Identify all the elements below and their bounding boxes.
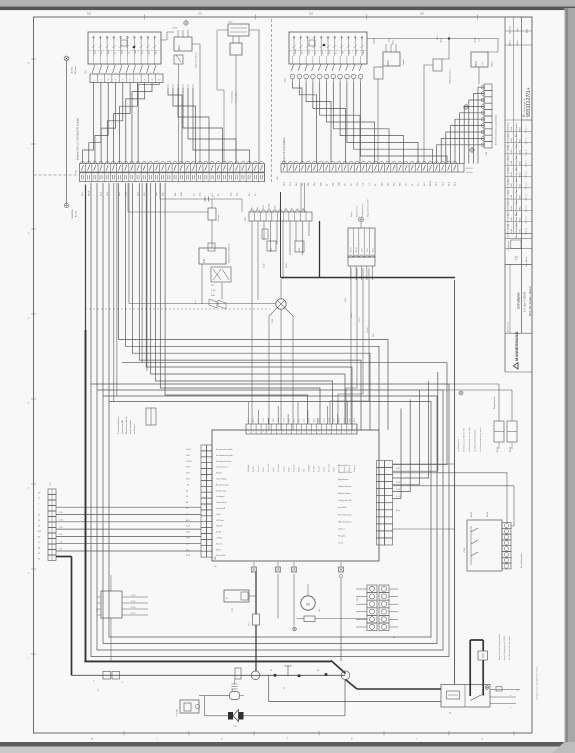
svg-text:12.08: 12.08 (511, 184, 513, 189)
note text Anschluss Zusatz (498, 634, 511, 660)
svg-text:9: 9 (334, 431, 335, 433)
frame ruler ticks left (27, 59, 37, 659)
svg-text:T: T (286, 737, 288, 741)
svg-text:Bordnetz: Bordnetz (74, 66, 77, 74)
svg-text:3: 3 (258, 431, 259, 433)
bus sensor symbol (284, 666, 292, 689)
wires top-right interconnect (367, 37, 498, 163)
label MOD left margin (72, 209, 78, 218)
svg-text:Meld.Auf: Meld.Auf (307, 464, 310, 472)
bus node circle 1 (251, 671, 260, 680)
svg-text:E13a: E13a (211, 295, 215, 297)
svg-text:14 1: 14 1 (211, 285, 214, 287)
dashed zone boundary mid-left (85, 308, 270, 310)
svg-text:+UB.14: +UB.14 (216, 538, 222, 540)
svg-text:B.Wz: B.Wz (520, 195, 522, 200)
svg-text:1 115: 1 115 (396, 482, 400, 484)
svg-text:12.08: 12.08 (511, 195, 513, 200)
terminal strip X1 left second row (80, 173, 265, 182)
svg-text:Cab2: Cab2 (274, 205, 276, 210)
title block drawing number cell (522, 87, 533, 120)
C2 outside labels (38, 493, 41, 561)
svg-text:Sich.Ein: Sich.Ein (258, 465, 260, 472)
A2 internal top labels (247, 463, 356, 472)
heavy wire left vertical (85, 185, 87, 662)
relay K2515 contact (174, 55, 183, 164)
svg-text:Gen 1.1: Gen 1.1 (526, 136, 528, 144)
svg-text:1: 1 (38, 509, 39, 511)
wire bundle left filler verticals (114, 183, 147, 402)
frame ruler ticks bottom (91, 731, 514, 741)
svg-text:2: 2 (298, 431, 299, 433)
svg-text:Pumpe0: Pumpe0 (354, 465, 356, 472)
svg-text:MOD2/B16: MOD2/B16 (72, 209, 74, 218)
labels E6.30 E6.31 (264, 264, 289, 268)
svg-text:Blk.v: Blk.v (156, 50, 158, 54)
wrap loop 2 (103, 183, 437, 644)
wrap loop 1 (109, 183, 431, 637)
svg-text:1.13: 1.13 (283, 419, 285, 423)
svg-text:30.8: 30.8 (334, 419, 336, 423)
svg-text:ab: ab (315, 52, 317, 54)
svg-text:Achslastwaage: Achslastwaage (216, 483, 229, 486)
svg-text:Dreh1: Dreh1 (324, 467, 326, 472)
title block revision rows (505, 120, 532, 264)
svg-text:2: 2 (253, 431, 254, 433)
svg-text:12.08: 12.08 (511, 229, 513, 234)
svg-text:Schutzvermerk nach DIN 34 beac: Schutzvermerk nach DIN 34 beachten (536, 666, 539, 700)
svg-text:Entlastung 2: Entlastung 2 (216, 489, 227, 492)
svg-text:5: 5 (268, 431, 269, 433)
svg-text:B6.1: B6.1 (253, 418, 255, 422)
svg-text:Kl.58: Kl.58 (216, 549, 220, 551)
svg-text:1 30: 1 30 (59, 541, 62, 543)
svg-text:Magnet.Senken: Magnet.Senken (338, 485, 351, 488)
dark fuse bowtie (228, 710, 244, 728)
svg-text:Blink: Blink (329, 50, 331, 54)
svg-text:2: 2 (344, 431, 345, 433)
fuse box in heavy loop (478, 651, 488, 660)
svg-text:Cab2: Cab2 (216, 514, 221, 516)
bus component small (231, 668, 241, 691)
title block approval cell (507, 240, 528, 267)
svg-text:4 150: 4 150 (131, 613, 136, 615)
svg-text:Deichsel C.B. E30 (Option): Deichsel C.B. E30 (Option) (283, 137, 286, 165)
svg-text:Regelgeschw.(+): Regelgeschw.(+) (362, 203, 364, 217)
svg-text:Hupe: Hupe (393, 40, 395, 45)
svg-text:12.08: 12.08 (511, 138, 513, 143)
svg-text:C4: C4 (186, 496, 188, 498)
svg-text:- B1: - B1 (186, 484, 189, 486)
svg-text:15.1: 15.1 (319, 419, 321, 423)
svg-text:2519: 2519 (475, 61, 478, 67)
bus junction dots (270, 670, 328, 677)
svg-text:Gen 1.1: Gen 1.1 (526, 125, 528, 133)
svg-text:B16/6a: B16/6a (72, 66, 74, 73)
wire bundle left verticals secondary (151, 183, 345, 424)
svg-text:31c: 31c (249, 193, 251, 196)
wires into X7 (356, 589, 398, 639)
svg-text:B6.1: B6.1 (314, 418, 316, 422)
svg-text:0 150: 0 150 (131, 601, 136, 603)
svg-text:F222: F222 (464, 547, 466, 553)
svg-text:fern: fern (321, 51, 324, 54)
svg-text:B6.05: B6.05 (88, 190, 90, 196)
svg-text:4: 4 (354, 431, 355, 433)
svg-text:bei Einbau: bei Einbau (134, 425, 136, 434)
connector 151 numbered strip (86, 69, 164, 82)
svg-text:Gen 1.1: Gen 1.1 (526, 204, 528, 212)
svg-text:Verdrahtung an 3-B und 7-B: Verdrahtung an 3-B und 7-B (463, 428, 466, 452)
svg-text:Fernlichtschalter: Fernlichtschalter (520, 553, 523, 568)
terminal strip X1 left labels (82, 190, 257, 196)
connector 272 (97, 591, 148, 618)
svg-text:B.Wz: B.Wz (520, 150, 522, 155)
terminal strip X1 right segment (277, 162, 464, 180)
svg-text:350: 350 (198, 12, 203, 16)
terminal strip X1 left segment (75, 161, 265, 173)
wires below strip U6.7 (252, 221, 309, 424)
svg-text:Drehzahlreg: Drehzahlreg (216, 501, 226, 504)
svg-text:12.08: 12.08 (511, 218, 513, 223)
svg-text:(+1): (+1) (482, 62, 484, 66)
F222 labels (471, 512, 523, 568)
svg-text:Werksnorm und Vor-: Werksnorm und Vor- (126, 415, 128, 434)
switch block F222 (464, 520, 502, 571)
svg-text:B16 (7,8) C28 Option, Zweikrei: B16 (7,8) C28 Option, Zweikreisfunk (495, 114, 498, 145)
svg-text:350: 350 (87, 12, 92, 16)
solenoid valve box right 2 (507, 390, 517, 442)
A2 top pin row (246, 424, 357, 434)
wire fan from connector 251 to strip (293, 82, 448, 164)
solenoid Y21 coil (374, 37, 395, 163)
title block upper cells (505, 26, 532, 46)
scanner band bottom (0, 742, 575, 753)
svg-text:B6.06: B6.06 (487, 512, 489, 517)
A2 right pin wires to 454 wire (393, 464, 455, 529)
fuse symbol near note (146, 408, 156, 425)
svg-text:58R: 58R (339, 182, 341, 186)
svg-text:6: 6 (273, 431, 274, 433)
svg-text:Senk.Vorw: Senk.Vorw (329, 463, 331, 472)
svg-text:r: r (417, 737, 418, 741)
svg-text:58: 58 (38, 526, 40, 528)
arrow symbols on E13 wire (195, 285, 226, 309)
connector 151 pin slashes (92, 56, 156, 73)
svg-text:3: 3 (349, 431, 350, 433)
svg-text:ho: ho (336, 52, 338, 54)
wire fan from connector 151 to strip X1 (83, 83, 160, 164)
svg-text:(1.6.9): (1.6.9) (367, 327, 369, 333)
svg-text:Lastsignal: Lastsignal (216, 495, 225, 498)
svg-text:B.Wz: B.Wz (520, 161, 522, 166)
svg-text:1914, Vhl. Sonder-, Option): 1914, Vhl. Sonder-, Option) (529, 286, 532, 317)
svg-text:Heben: Heben (334, 467, 336, 472)
svg-text:30: 30 (38, 559, 40, 561)
svg-text:1: 1 (293, 431, 294, 433)
svg-text:350: 350 (309, 12, 314, 16)
svg-text:Temperaturf. B0: Temperaturf. B0 (338, 499, 351, 502)
svg-text:SOLL.Anschluss: SOLL.Anschluss (338, 513, 352, 516)
wire contact3 down to plus node (293, 574, 297, 631)
svg-text:Schwimmstellung: Schwimmstellung (216, 460, 231, 463)
svg-text:B6.10: B6.10 (356, 247, 358, 252)
svg-text:Blink: Blink (108, 50, 110, 54)
sheet separator dashed line (271, 19, 273, 182)
svg-text:Cab: Cab (288, 419, 290, 422)
heavy wire C2 jumper down to bus (56, 557, 72, 676)
svg-text:Gen 1.1: Gen 1.1 (526, 215, 528, 223)
relay 2519 coil (471, 36, 494, 67)
svg-text:Schwimm: Schwimm (278, 464, 280, 472)
svg-text:31.8: 31.8 (248, 419, 250, 423)
svg-text:84: 84 (186, 490, 188, 492)
svg-text:1.6.1: 1.6.1 (324, 418, 326, 422)
svg-text:B Tac: B Tac (396, 510, 401, 512)
svg-text:1711: 1711 (232, 608, 234, 612)
svg-text:Kl.15 58: Kl.15 58 (466, 168, 473, 170)
svg-text:(wenn Tachograph o.V.) B16: (wenn Tachograph o.V.) B16 (503, 636, 506, 660)
svg-text:G: G (522, 114, 526, 117)
svg-text:Pu: Pu (212, 196, 214, 198)
contact marker 2 (276, 562, 281, 572)
svg-text:DBL.Sensortast: DBL.Sensortast (338, 520, 352, 523)
svg-text:B.Wz: B.Wz (520, 229, 522, 234)
svg-text:A5: A5 (38, 536, 40, 539)
svg-text:1 30: 1 30 (59, 534, 62, 536)
svg-text:B6.08: B6.08 (510, 447, 512, 452)
svg-text:Heben: Heben (273, 467, 275, 472)
frame margin copyright text (536, 666, 539, 700)
star junction E13 (129, 183, 293, 430)
wires below U6 (345, 278, 375, 337)
svg-text:15: 15 (291, 208, 293, 210)
svg-text:M1: M1 (319, 609, 321, 612)
svg-text:350: 350 (420, 12, 425, 16)
svg-text:Notab: Notab (287, 467, 290, 472)
wire right vertical 454 (454, 280, 456, 685)
connector box 151 (top-left) (88, 32, 161, 64)
svg-text:31: 31 (38, 553, 40, 555)
svg-text:K6.208: K6.208 (314, 466, 316, 472)
svg-text:4: 4 (263, 431, 264, 433)
wires mid-left (202, 264, 222, 304)
svg-text:Regen: Regen (351, 212, 353, 217)
svg-text:Cab: Cab (349, 419, 351, 422)
svg-text:B6.4: B6.4 (339, 418, 341, 422)
dashed sheet boundary left (34, 174, 80, 176)
svg-text:K6.208: K6.208 (253, 466, 255, 472)
wire staircase bundle left-mid (168, 84, 250, 164)
svg-text:31.8: 31.8 (308, 419, 310, 423)
frame ruler ticks top (87, 12, 478, 20)
wires top-left interconnect (161, 30, 259, 164)
svg-text:C28 opt: C28 opt (466, 171, 473, 174)
svg-text:Takt: Takt (302, 468, 305, 472)
A2 right outside labels (396, 468, 401, 512)
wires U6 down to A2 (330, 268, 369, 424)
svg-text:12.08: 12.08 (511, 172, 513, 177)
svg-text:B.Wz: B.Wz (520, 218, 522, 223)
svg-text:(Au): (Au) (256, 206, 259, 210)
title block description cell (508, 264, 532, 333)
svg-text:Fernst.Ueb: Fernst.Ueb (216, 554, 225, 557)
svg-text:27 B11: 27 B11 (186, 461, 192, 463)
svg-text:1 150: 1 150 (131, 595, 136, 597)
svg-text:Meld.Auf: Meld.Auf (247, 464, 250, 472)
svg-text:Fernbedienung Heb: Fernbedienung Heb (216, 454, 233, 457)
svg-text:Stand: Stand (294, 50, 297, 54)
A2 left pin outside labels (186, 449, 192, 557)
svg-text:MANNESMANN: MANNESMANN (514, 332, 519, 361)
junction symbols circled-plus right (464, 105, 474, 152)
svg-text:Gepr Name: Gepr Name (525, 257, 528, 267)
wrap loop 4 (91, 183, 449, 657)
svg-text:B.Wz: B.Wz (520, 184, 522, 189)
svg-text:251.9: 251.9 (475, 36, 477, 42)
svg-text:B16 Wass.Vent.1: B16 Wass.Vent.1 (449, 69, 452, 83)
svg-text:Freigabedat: Freigabedat (507, 241, 510, 251)
svg-text:1.11: 1.11 (303, 419, 305, 422)
svg-text:1.6.1: 1.6.1 (263, 418, 265, 422)
svg-text:Mag.Vent. Sonder: Mag.Vent. Sonder (195, 52, 198, 68)
svg-text:Sich.Ein: Sich.Ein (319, 465, 321, 472)
svg-text:Gen 1.1: Gen 1.1 (526, 182, 528, 190)
svg-text:1.6.9: 1.6.9 (329, 418, 331, 422)
svg-text:B.Wz: B.Wz (520, 206, 522, 211)
svg-text:Benennung: Benennung (508, 322, 510, 332)
relay K2515-2 coil (383, 44, 405, 66)
svg-text:E6.30: E6.30 (264, 264, 266, 268)
svg-text:x: x (517, 690, 518, 692)
svg-text:Drehz.2: Drehz.2 (338, 527, 345, 530)
note text block special function (117, 415, 136, 434)
svg-text:12.08: 12.08 (511, 206, 513, 211)
svg-text:1 30: 1 30 (59, 549, 62, 551)
svg-text:Magn.Getriebe 4, B16: Magn.Getriebe 4, B16 (367, 199, 370, 217)
wires from U18 stepping to strip (437, 87, 484, 163)
small box K6b (262, 229, 268, 239)
connector block X7 double column (367, 585, 389, 631)
wire loop at F1 (199, 696, 230, 716)
small box 2546 (295, 241, 304, 252)
svg-text:15.8: 15.8 (359, 318, 361, 322)
svg-text:A1.8: A1.8 (186, 519, 190, 522)
svg-text:nur Zusatzeinspritzung vorne: nur Zusatzeinspritzung vorne (479, 428, 482, 452)
svg-text:Freigabe: Freigabe (338, 534, 345, 537)
svg-text:C.06: C.06 (186, 526, 190, 528)
contact marker 3 (292, 562, 297, 572)
label B16 Wasser (449, 69, 452, 83)
svg-text:B6.2: B6.2 (354, 418, 356, 422)
svg-text:Hub.06: Hub.06 (216, 526, 222, 528)
svg-text:Gen 1.1: Gen 1.1 (526, 170, 528, 178)
svg-text:15: 15 (186, 508, 188, 510)
svg-text:1 30: 1 30 (59, 512, 62, 514)
terminal strip U6.7 (245, 210, 312, 221)
svg-text:B6.11: B6.11 (351, 313, 353, 318)
svg-text:0.84: 0.84 (186, 473, 190, 475)
svg-text:U 114: U 114 (211, 290, 215, 292)
fuse F7 on heavy wire (249, 614, 260, 626)
contact block with crossings (211, 267, 231, 282)
svg-text:8: 8 (283, 431, 284, 433)
svg-text:3: 3 (303, 431, 304, 433)
vertical label Deichsel left (77, 118, 80, 160)
svg-text:Schaltplan: Schaltplan (517, 292, 521, 309)
connector column U18 (481, 84, 497, 156)
svg-text:St.re: St.re (148, 50, 151, 54)
svg-text:Nam Urspr Ers: Nam Urspr Ers (515, 224, 518, 238)
svg-text:B5: B5 (393, 637, 395, 639)
svg-text:54: 54 (38, 515, 40, 517)
svg-text:-x: -x (93, 680, 95, 682)
component 451 water valve (433, 35, 443, 71)
A2 left pin column (201, 445, 212, 557)
wire contact2 down (277, 574, 279, 619)
svg-text:F7.1: F7.1 (249, 622, 251, 626)
svg-text:Kennz: Kennz (356, 49, 358, 54)
wire from B16 node down to MOD node (64, 61, 68, 208)
svg-text:Regelsensor: Regelsensor (338, 478, 349, 481)
connector 251 pin slashes (291, 56, 362, 71)
svg-text:30.8: 30.8 (273, 419, 275, 423)
svg-text:1.Ruf: 1.Ruf (263, 205, 265, 210)
lower distribution bus (72, 674, 346, 676)
svg-text:B6.9: B6.9 (372, 248, 374, 252)
svg-text:F1 100A: F1 100A (176, 709, 179, 717)
svg-text:7: 7 (278, 431, 279, 433)
connector 251 pin circles (285, 74, 363, 82)
vertical label Deichsel right (283, 137, 286, 165)
svg-text:E6.31: E6.31 (286, 264, 288, 268)
connector box 251 (top-right) (289, 32, 367, 64)
relay K2515 coil (172, 21, 198, 68)
svg-text:Pumpe: Pumpe (218, 214, 220, 221)
svg-text:nur Kaltvariante: nur Kaltvariante (457, 439, 460, 452)
battery fuse F1 box (176, 700, 200, 716)
solenoid valve Y51 coil (230, 36, 242, 164)
svg-text:Regler: Regler (298, 466, 300, 472)
svg-text:N1: N1 (317, 670, 319, 672)
F222 pin column (502, 523, 511, 569)
svg-text:Regelstr.LED gn: Regelstr.LED gn (338, 471, 352, 474)
svg-text:Wasser: Wasser (492, 61, 494, 67)
svg-text:4 B3: 4 B3 (186, 532, 190, 534)
note text nur Kaltvariante (457, 427, 482, 452)
svg-text:1: 1 (339, 431, 340, 433)
svg-text:Bearbeit: Bearbeit (509, 26, 512, 34)
svg-text:7: 7 (38, 504, 39, 506)
svg-text:31c: 31c (406, 183, 408, 186)
label 15A (356, 598, 359, 602)
svg-text:x: x (510, 695, 511, 697)
connector column C2 (48, 482, 56, 561)
small box K6c (267, 241, 276, 251)
svg-text:B6.2: B6.2 (293, 418, 295, 422)
svg-text:C28 Cab: C28 Cab (216, 520, 223, 522)
svg-text:Gen 1.1: Gen 1.1 (526, 193, 528, 201)
svg-text:1: 1 (248, 431, 249, 433)
svg-text:Senken: Senken (216, 473, 222, 475)
svg-text:Gepr: Gepr (517, 27, 519, 32)
wire bus drop to box 40 feed (268, 675, 270, 701)
svg-text:Zeichnungs - Nr.: Zeichnungs - Nr. (524, 97, 526, 112)
wires out of junction box right (490, 687, 520, 710)
svg-text:31: 31 (297, 208, 299, 210)
svg-text:12.08: 12.08 (511, 161, 513, 166)
circled plus above U6 (359, 217, 364, 228)
